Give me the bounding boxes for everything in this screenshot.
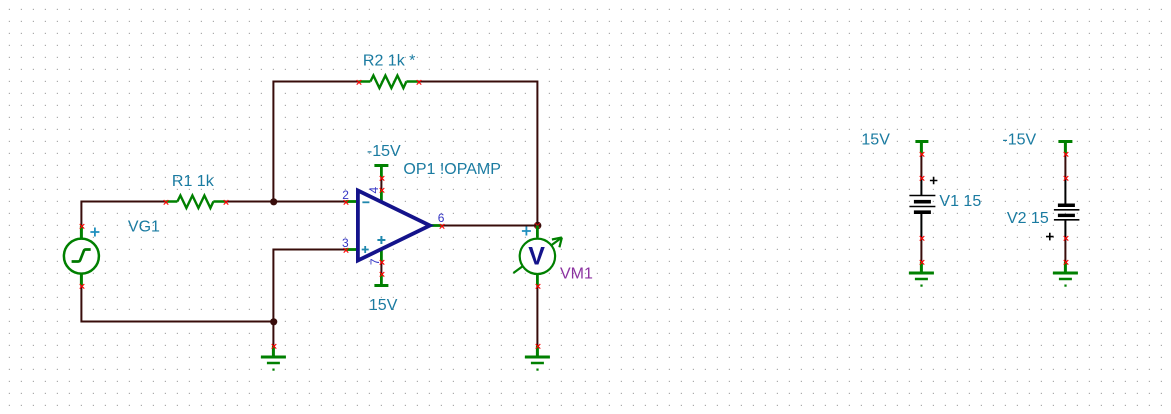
svg-text:V1 15: V1 15: [939, 193, 981, 210]
svg-text:V: V: [528, 242, 545, 270]
svg-text:-15V: -15V: [1002, 132, 1036, 149]
svg-text:R1 1k: R1 1k: [172, 173, 215, 190]
svg-text:3: 3: [342, 236, 349, 250]
svg-text:V2 15: V2 15: [1007, 210, 1049, 227]
svg-text:-15V: -15V: [367, 143, 401, 160]
svg-text:R2 1k *: R2 1k *: [363, 53, 415, 70]
svg-text:VM1: VM1: [560, 266, 593, 283]
svg-text:4: 4: [367, 187, 381, 194]
svg-text:VG1: VG1: [128, 219, 160, 236]
svg-text:15V: 15V: [369, 297, 398, 314]
svg-text:OP1 !OPAMP: OP1 !OPAMP: [403, 161, 501, 178]
svg-text:6: 6: [438, 211, 445, 225]
svg-text:15V: 15V: [861, 132, 890, 149]
svg-text:7: 7: [368, 258, 382, 265]
svg-text:2: 2: [342, 188, 349, 202]
